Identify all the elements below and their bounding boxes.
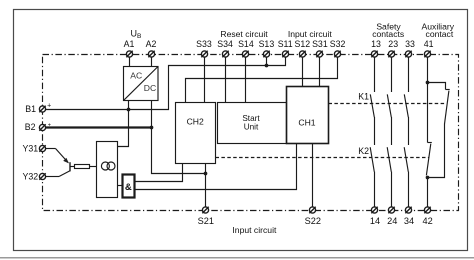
contact column 23-24 wires	[391, 57, 393, 92]
aux NC contact K2 blade	[426, 144, 430, 176]
svg-text:S13: S13	[259, 39, 275, 49]
wire AND output B to CH1 bottom	[135, 144, 297, 190]
svg-text:24: 24	[387, 216, 397, 226]
terminals group	[39, 51, 430, 213]
svg-text:K2: K2	[358, 146, 369, 156]
contact K2 blade 13-14	[370, 147, 374, 172]
contact K2 blade 23-24	[387, 147, 391, 172]
terminal 33	[405, 51, 411, 57]
terminal S13	[263, 51, 269, 57]
svg-text:33: 33	[405, 39, 415, 49]
svg-text:Y32: Y32	[23, 172, 39, 182]
wire DC- rail from AC/DC to node S21	[152, 101, 206, 174]
terminal 14	[371, 207, 377, 213]
terminal S11	[282, 51, 288, 57]
wire S31 to CH1	[319, 57, 321, 86]
wire B2 thick feed	[46, 126, 152, 128]
contact K1 blade 33-34	[404, 94, 408, 117]
resistor R1	[75, 165, 90, 169]
terminal 41	[424, 51, 430, 57]
contact K2 blade 33-34	[404, 147, 408, 172]
wire S32 to CH2	[186, 57, 338, 102]
contact column 13-14 wires	[374, 57, 376, 92]
wire CH1 bottom to S22	[312, 144, 314, 208]
svg-text:CH1: CH1	[298, 117, 315, 127]
svg-text:S11: S11	[278, 39, 293, 49]
wire Y31 lead	[46, 148, 56, 150]
svg-text:S32: S32	[330, 39, 346, 49]
terminal 13	[371, 51, 377, 57]
svg-text:S31: S31	[312, 39, 328, 49]
terminal 24	[388, 207, 394, 213]
aux NC contact K1 blade	[445, 91, 449, 124]
power supply unit U1 AC/DC converter box	[124, 67, 159, 101]
junction dot B1/DC+	[127, 108, 131, 112]
wire node to terminal 42	[427, 178, 429, 208]
wire AND output A to CH2 bottom	[135, 164, 183, 182]
svg-text:A1: A1	[124, 39, 135, 49]
svg-text:S14: S14	[238, 39, 254, 49]
svg-text:41: 41	[424, 39, 434, 49]
svg-text:S22: S22	[305, 216, 321, 226]
svg-text:S12: S12	[294, 39, 310, 49]
svg-text:CH2: CH2	[187, 117, 204, 127]
channel box CH1	[287, 87, 329, 144]
wire S14 to start unit	[245, 57, 247, 102]
wire A1 stub into AC/DC	[129, 57, 131, 66]
svg-text:&: &	[125, 182, 132, 193]
svg-text:13: 13	[371, 39, 381, 49]
svg-text:+: +	[48, 122, 51, 128]
svg-text:34: 34	[404, 216, 414, 226]
K2 mechanical dashed link	[216, 157, 430, 159]
terminal Y32	[39, 173, 45, 179]
terminal 34	[405, 207, 411, 213]
device boundary dash-dot outline	[43, 55, 459, 211]
terminal S32	[334, 51, 340, 57]
wire base bar to resistor R1	[70, 166, 75, 168]
svg-text:S33: S33	[196, 39, 212, 49]
transistor Q1 base bar	[69, 162, 71, 171]
start unit box	[218, 103, 287, 144]
svg-text:Input circuit: Input circuit	[232, 225, 277, 235]
terminal S22	[309, 207, 315, 213]
wire S13 stub	[266, 57, 268, 65]
svg-text:42: 42	[422, 216, 432, 226]
contact K1 blade 23-24	[387, 94, 391, 117]
transistor Q1 emitter diagonal with arrow	[56, 149, 69, 163]
svg-text:B1: B1	[25, 104, 36, 114]
junction dot aux top node	[426, 81, 430, 85]
svg-text:Input circuit: Input circuit	[288, 29, 333, 39]
svg-text:Reset circuit: Reset circuit	[220, 29, 268, 39]
wire B1 feed to S13/S11 net	[46, 57, 286, 109]
terminal Y31	[39, 145, 45, 151]
svg-text:A2: A2	[146, 39, 157, 49]
terminal S12	[299, 51, 305, 57]
wire resistor R1 to logic box	[90, 166, 97, 168]
svg-text:DC: DC	[144, 83, 156, 93]
terminal S33	[201, 51, 207, 57]
svg-text:contacts: contacts	[372, 29, 404, 39]
svg-text:14: 14	[370, 216, 380, 226]
terminal 23	[388, 51, 394, 57]
contact K1 blade 13-14	[370, 94, 374, 117]
svg-text:S21: S21	[198, 216, 214, 226]
wire logic box to AND gate	[118, 185, 123, 187]
svg-text:B2: B2	[25, 122, 36, 132]
svg-text:contact: contact	[426, 29, 454, 39]
svg-text:Unit: Unit	[244, 122, 259, 131]
junction dot B2/DC-	[150, 126, 154, 130]
contact column 33-34 wires	[408, 57, 410, 92]
text group	[23, 22, 455, 235]
wire S12 to CH1	[302, 57, 304, 86]
junction dot aux bottom node	[426, 176, 430, 180]
transistor Q1 arrowhead	[63, 158, 69, 164]
terminal A2	[148, 51, 154, 57]
channel box CH2	[176, 103, 216, 164]
AND gate box	[123, 175, 135, 198]
svg-text:S34: S34	[217, 39, 233, 49]
wire right branch return to node 42	[428, 124, 445, 178]
terminal S31	[316, 51, 322, 57]
wire CH2 bottom to S21	[205, 164, 207, 208]
aux NC contact K1 seat	[446, 89, 450, 91]
transistor Q1 collector diagonal	[59, 171, 70, 177]
svg-text:+: +	[47, 103, 51, 110]
svg-text:Y31: Y31	[23, 143, 39, 153]
page rule line	[0, 257, 474, 259]
wire 41 right branch to K1 aux contact	[428, 83, 446, 90]
wire S34 to start unit	[225, 57, 227, 102]
svg-text:K1: K1	[358, 92, 369, 102]
terminal S14	[242, 51, 248, 57]
terminal A1	[126, 51, 132, 57]
svg-text:AC: AC	[130, 70, 142, 80]
terminal B1	[39, 106, 45, 112]
wire S33 to CH2	[204, 57, 206, 102]
monitoring logic box with interlocked rings	[97, 142, 118, 198]
K1 mechanical dashed link	[329, 103, 447, 105]
terminal 42	[424, 207, 430, 213]
wire 41 left branch	[427, 57, 429, 142]
aux NC contact K2 seat	[428, 142, 432, 144]
svg-text:23: 23	[388, 39, 398, 49]
terminal B2	[39, 124, 45, 130]
wire Y32 lead	[46, 176, 59, 178]
wire DC+ rail from AC/DC to logic box	[118, 101, 129, 147]
terminal S21	[202, 207, 208, 213]
junction dot S21 node	[204, 172, 208, 176]
junction dot S13 node	[265, 64, 269, 68]
wire A2 stub into AC/DC	[151, 57, 153, 66]
terminal S34	[222, 51, 228, 57]
